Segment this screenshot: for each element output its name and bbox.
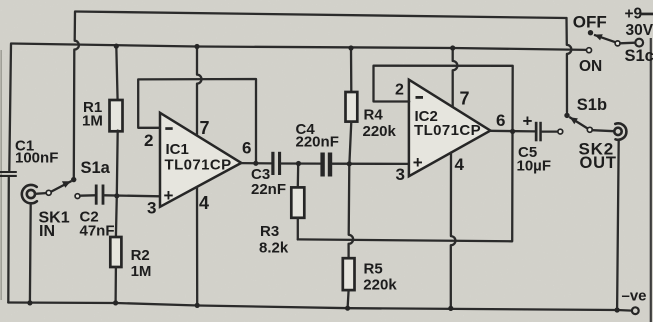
IC1 minus input mark [165,127,172,130]
resistor R3 [291,164,304,240]
wire C4 to IC2 pin3 [332,163,409,165]
junction 0V rail SK2 [615,307,620,312]
resistor R1 [110,46,123,196]
svg-text:2: 2 [395,82,404,99]
wire S1a bypass vertical with hop over +V rail [74,12,79,177]
wire IC1 output to C3 [242,162,272,165]
wire SK2 down to 0V rail [617,140,619,310]
wire left vertical (C1 branch) lower [7,178,10,303]
svg-text:220nF: 220nF [296,134,339,151]
svg-text:OFF: OFF [573,13,607,32]
op-amp IC2 [409,80,491,177]
svg-text:6: 6 [242,139,251,158]
junction IC1 pin3 node [114,193,119,198]
svg-text:220k: 220k [363,123,397,140]
wire S1c pole to +9V terminal [620,42,635,45]
svg-text:IN: IN [39,223,55,240]
svg-text:2: 2 [144,131,153,150]
wire C3 to C4 [281,162,320,164]
junction +V rail IC1 pin7 [194,44,199,49]
svg-text:R5: R5 [364,261,383,278]
capacitor C2 [75,185,104,205]
svg-text:22nF: 22nF [251,181,286,198]
capacitor C1 [0,171,17,177]
svg-text:1M: 1M [82,113,103,130]
wire SK1 ground drop [29,203,32,302]
svg-text:3: 3 [147,199,156,218]
svg-text:R2: R2 [131,247,150,264]
socket SK2 [614,123,626,139]
svg-text:100nF: 100nF [15,150,58,167]
junction 0V rail R5 [345,306,350,311]
svg-text:R3: R3 [260,223,279,240]
svg-text:4: 4 [455,155,465,174]
svg-text:ON: ON [579,58,602,75]
junction node C3 C4 R3 [296,161,301,166]
svg-text:–ve: –ve [622,288,647,305]
junction node C4 R4 R5 pin3 [347,161,352,166]
resistor R2 [110,196,121,303]
terminal +9-30V [635,39,643,47]
svg-text:S1c: S1c [625,47,653,65]
junction IC1 output feedback node [253,161,258,166]
resistor R5 with hop over feedback line [343,164,355,308]
wire +V rail [11,44,587,50]
svg-text:+: + [164,186,174,205]
svg-text:+: + [523,112,533,131]
svg-text:1M: 1M [131,263,152,280]
junction 0V rail R2 [113,300,118,305]
wire top bypass rail [75,12,567,19]
wire IC1 pin7 with hop [197,47,202,135]
junction +V rail IC2 pin7 [450,45,455,50]
wire 0V bottom rail [8,303,632,311]
wire IC2 pin4 drop with hop [451,153,456,309]
switch S1a [46,177,76,195]
resistor R4 [346,48,358,164]
svg-text:3: 3 [396,165,405,184]
switch S1b [564,113,592,133]
IC2 feedback loop: R3 line, up right side, top, pin2 [298,66,513,242]
junction 0V rail IC2 pin4 [448,306,453,311]
svg-text:S1a: S1a [81,159,111,177]
svg-text:4: 4 [199,193,209,213]
page edge line left [0,50,2,300]
svg-text:OUT: OUT [580,154,617,172]
wire IC2 pin7 with hop [453,48,458,106]
svg-text:S1b: S1b [577,96,607,114]
svg-text:220k: 220k [363,277,397,294]
svg-text:30V: 30V [626,22,653,39]
capacitor C3 [271,152,281,175]
junction IC2 output node [510,129,515,134]
wire IC1 pin4 drop [196,187,198,305]
junction 0V rail IC1 pin4 [195,303,200,308]
capacitor C4 [320,153,332,177]
wire left vertical (C1 branch) upper [9,44,11,171]
junction +V rail R4 [348,45,353,50]
svg-text:6: 6 [496,111,505,130]
svg-text:+9: +9 [625,6,643,23]
wire SK1 to S1a contact [35,192,46,195]
page edge line right [650,38,652,322]
wire S1b to SK2 [592,130,614,131]
junction +V rail R1 [114,44,119,49]
IC1 feedback loop pin2 to output [138,79,256,163]
junction 0V rail SK1 [27,300,32,305]
terminal -ve [632,307,639,314]
svg-text:8.2k: 8.2k [259,240,289,257]
socket SK1 [22,185,37,203]
wire C2 to IC1 pin3 [105,195,160,196]
wire S1b drop from bypass rail with hop [567,18,572,112]
svg-text:TL071CP: TL071CP [165,156,232,173]
svg-text:TL071CP: TL071CP [414,122,481,139]
svg-text:+: + [413,153,423,172]
capacitor C5 [535,122,563,142]
switch S1c [587,30,621,53]
svg-text:10µF: 10µF [517,158,552,175]
svg-text:7: 7 [200,118,210,138]
svg-text:R4: R4 [364,107,384,124]
IC2 minus input mark [416,96,424,99]
svg-text:7: 7 [460,89,470,109]
wire IC2 output to C5 [490,130,535,133]
op-amp IC1 [160,113,241,207]
